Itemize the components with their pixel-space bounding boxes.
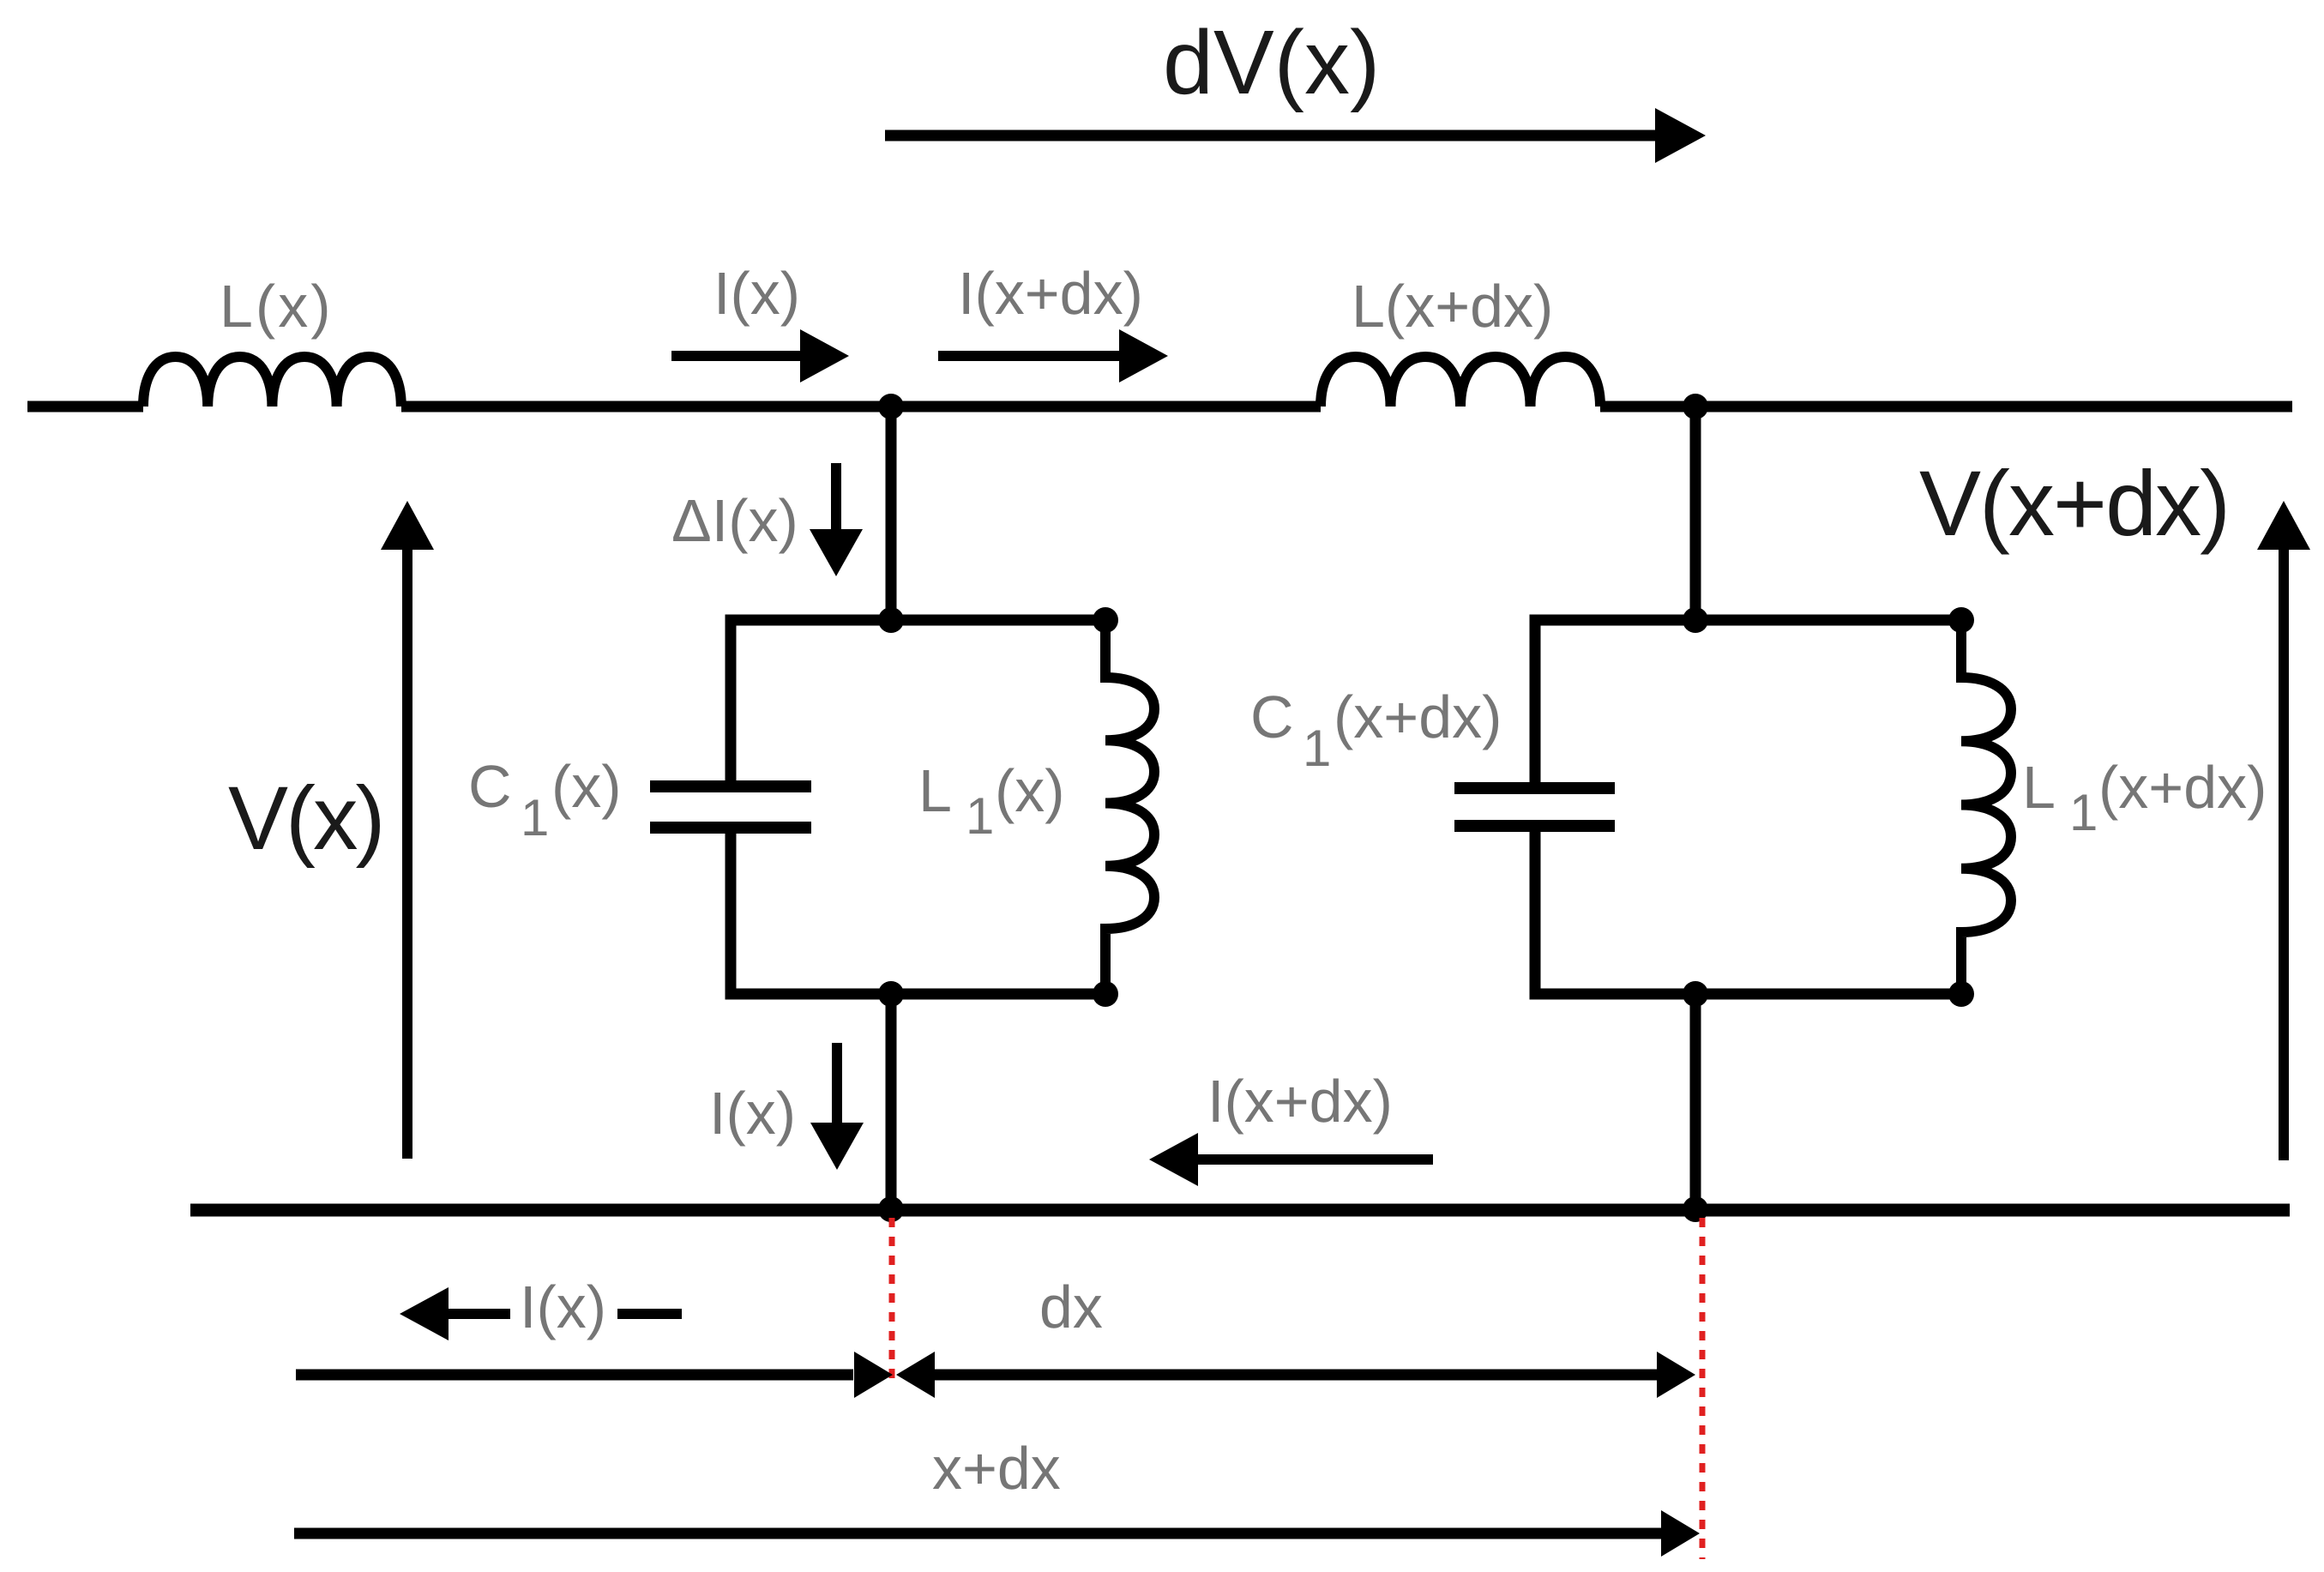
svg-text:C: C xyxy=(1250,684,1294,750)
svg-text:L(x+dx): L(x+dx) xyxy=(1352,273,1553,340)
svg-text:x+dx: x+dx xyxy=(932,1435,1061,1502)
node bottom wire junction x xyxy=(878,1196,904,1222)
arrow I(x+dx) top xyxy=(938,329,1168,382)
tank circuit 2 loop xyxy=(1535,620,1961,994)
arrow I(x) down xyxy=(810,1043,864,1170)
svg-text:1: 1 xyxy=(966,787,994,845)
svg-text:I(x+dx): I(x+dx) xyxy=(958,260,1143,327)
inductor L(x) xyxy=(143,357,401,407)
node tank2 bottom center xyxy=(1683,981,1708,1007)
svg-text:I(x+dx): I(x+dx) xyxy=(1207,1068,1393,1135)
svg-text:1: 1 xyxy=(1303,720,1331,777)
node top wire junction x+dx xyxy=(1683,394,1708,419)
svg-text:I(x): I(x) xyxy=(709,1080,796,1147)
arrow dV(x) xyxy=(885,108,1706,163)
svg-text:L: L xyxy=(2022,754,2056,821)
arrow V(x+dx) up xyxy=(2257,501,2310,1160)
svg-text:I(x): I(x) xyxy=(520,1274,606,1340)
inductor L1(x+dx) vertical xyxy=(1961,623,2011,991)
svg-text:L: L xyxy=(918,757,952,824)
svg-text:V(x+dx): V(x+dx) xyxy=(1919,451,2229,555)
dimension arrow x xyxy=(296,1352,893,1398)
wire feed node2 bottom xyxy=(1690,994,1701,1209)
arrow V(x) up xyxy=(381,501,434,1159)
svg-text:1: 1 xyxy=(2069,784,2098,841)
wire feed node2 top xyxy=(1690,407,1701,620)
node top wire junction x xyxy=(878,394,904,419)
svg-text:C: C xyxy=(468,753,512,820)
node bottom wire junction x+dx xyxy=(1683,1196,1708,1222)
wire feed node1 top xyxy=(886,407,897,620)
node tank2 bottom right xyxy=(1948,981,1974,1007)
arrow I(x) return left xyxy=(400,1287,682,1340)
svg-text:(x+dx): (x+dx) xyxy=(1334,684,1502,750)
node tank1 top right xyxy=(1093,607,1118,633)
node tank1 bottom center xyxy=(878,981,904,1007)
node tank2 top center xyxy=(1683,607,1708,633)
node tank1 bottom right xyxy=(1093,981,1118,1007)
reference line red x xyxy=(889,1218,895,1383)
wire bottom line xyxy=(190,1204,2290,1217)
svg-text:dV(x): dV(x) xyxy=(1163,12,1380,113)
arrow ΔI(x) down xyxy=(810,463,863,576)
capacitor C1(x+dx) xyxy=(1454,788,1615,826)
arrow I(x) top xyxy=(671,329,849,382)
wire feed node1 bottom xyxy=(886,994,897,1209)
node tank1 top center xyxy=(878,607,904,633)
wire top line xyxy=(27,401,2292,413)
svg-text:V(x): V(x) xyxy=(228,768,382,869)
inductor L1(x) vertical xyxy=(1105,623,1154,991)
svg-text:ΔI(x): ΔI(x) xyxy=(671,487,798,554)
dimension arrow dx xyxy=(896,1352,1695,1398)
svg-text:1: 1 xyxy=(521,789,549,846)
svg-text:(x+dx): (x+dx) xyxy=(2098,754,2267,821)
reference line red x+dx xyxy=(1700,1218,1706,1559)
svg-text:dx: dx xyxy=(1039,1274,1103,1340)
svg-text:(x): (x) xyxy=(551,753,622,820)
node tank2 top right xyxy=(1948,607,1974,633)
capacitor C1(x) xyxy=(650,786,811,828)
arrow I(x+dx) left xyxy=(1149,1133,1433,1186)
svg-text:I(x): I(x) xyxy=(713,260,800,327)
tank circuit 1 loop xyxy=(731,620,1105,994)
dimension arrow x+dx xyxy=(294,1510,1700,1557)
inductor L(x+dx) xyxy=(1321,357,1600,407)
svg-text:(x): (x) xyxy=(995,757,1065,824)
svg-text:L(x): L(x) xyxy=(220,273,334,340)
